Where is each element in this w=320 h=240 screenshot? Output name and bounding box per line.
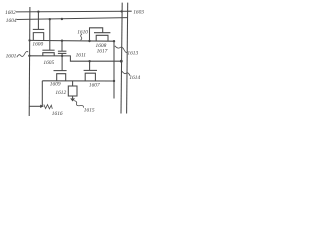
svg-text:1614: 1614	[129, 75, 140, 81]
wire node 1613 vertical	[113, 41, 115, 98]
junction dot bus2/gate1605	[49, 18, 51, 20]
transistor 1609 channel	[57, 74, 66, 81]
wire row B (gate node)	[30, 56, 122, 61]
svg-text:1604: 1604	[6, 18, 17, 24]
svg-text:1610: 1610	[77, 29, 88, 35]
wire bus 1602 (row select line)	[16, 10, 132, 13]
EL element 1612 bottom lead	[72, 96, 74, 98]
junction dot rowA/gate tie 1608	[88, 40, 90, 42]
transistor 1607 channel	[85, 73, 95, 81]
wire bus 1604 (second row line)	[17, 18, 128, 20]
wire column line 2 (net 1603)	[127, 3, 128, 114]
cathode arrow of 1612	[70, 98, 75, 101]
transistor 1600 gate bar	[33, 28, 44, 30]
junction dot bus1/column1	[121, 10, 123, 12]
svg-text:1605: 1605	[43, 60, 54, 66]
wire left vertical (net 1601)	[28, 7, 31, 116]
wire column line 1 (net 1603)	[121, 3, 122, 114]
junction dot rowB-ext/gate1607	[88, 60, 90, 62]
EL element 1612 top lead	[72, 81, 74, 86]
svg-text:1602: 1602	[5, 10, 16, 16]
junction dot bus2/cap lead	[61, 18, 63, 20]
junction dot rowA/node1613	[113, 40, 115, 42]
junction dot rowB/cap	[61, 55, 63, 57]
wire row A (node 1610)	[30, 39, 114, 42]
transistor 1607 gate bar	[84, 69, 97, 71]
svg-text:1601: 1601	[6, 53, 17, 59]
capacitor C1611 bottom lead	[61, 53, 63, 56]
transistor 1608 gate bar	[94, 32, 110, 34]
transistor 1609 gate bar	[54, 70, 67, 72]
transistor 1600 channel	[33, 33, 43, 41]
wire gate lead of Q1609	[61, 56, 63, 71]
transistor 1608 gate tie (diode connection)	[90, 28, 103, 41]
leader squiggle 1616	[44, 105, 53, 109]
leader squiggle 1614	[122, 71, 131, 76]
capacitor C1611 top lead	[61, 41, 63, 52]
transistor 1605 gate bar	[42, 49, 54, 51]
svg-text:1607: 1607	[89, 83, 100, 89]
svg-text:1609: 1609	[50, 81, 61, 87]
wire gate lead of Q1605	[49, 19, 51, 50]
junction dot rowA/cap	[61, 40, 63, 42]
svg-text:1612: 1612	[55, 90, 66, 96]
wire down-leg to output arrow	[41, 81, 43, 106]
capacitor C1611 top plate	[58, 50, 67, 52]
svg-text:1603: 1603	[133, 10, 144, 16]
svg-text:1613: 1613	[127, 50, 138, 56]
junction dot rowA left	[28, 39, 30, 41]
transistor 1605 channel	[43, 53, 54, 56]
leader squiggle 1615	[74, 101, 84, 108]
EL element 1612 box	[68, 86, 77, 96]
wire gate lead of Q1607	[89, 61, 91, 70]
arrowhead 1616	[40, 105, 44, 108]
junction dot bottom row/node1613	[113, 80, 115, 82]
junction dot bus1/gate1600	[37, 11, 39, 13]
wire gate lead of Q1600	[37, 12, 39, 30]
junction dot rowB left	[28, 55, 30, 57]
leader squiggle 1613	[115, 46, 128, 53]
svg-text:1615: 1615	[84, 107, 95, 113]
svg-text:1600: 1600	[32, 41, 43, 47]
transistor 1608 channel	[96, 35, 108, 41]
svg-text:1616: 1616	[52, 111, 63, 117]
capacitor C1611 bottom plate	[58, 52, 67, 54]
wire bottom row	[42, 80, 114, 82]
leader squiggle 1601	[17, 51, 28, 57]
leader squiggle 1610	[81, 34, 82, 40]
output arrow wire 1616	[30, 105, 41, 107]
svg-text:1611: 1611	[76, 52, 87, 58]
svg-text:1617: 1617	[97, 48, 108, 54]
junction dot rowB-ext/column1	[120, 60, 123, 63]
